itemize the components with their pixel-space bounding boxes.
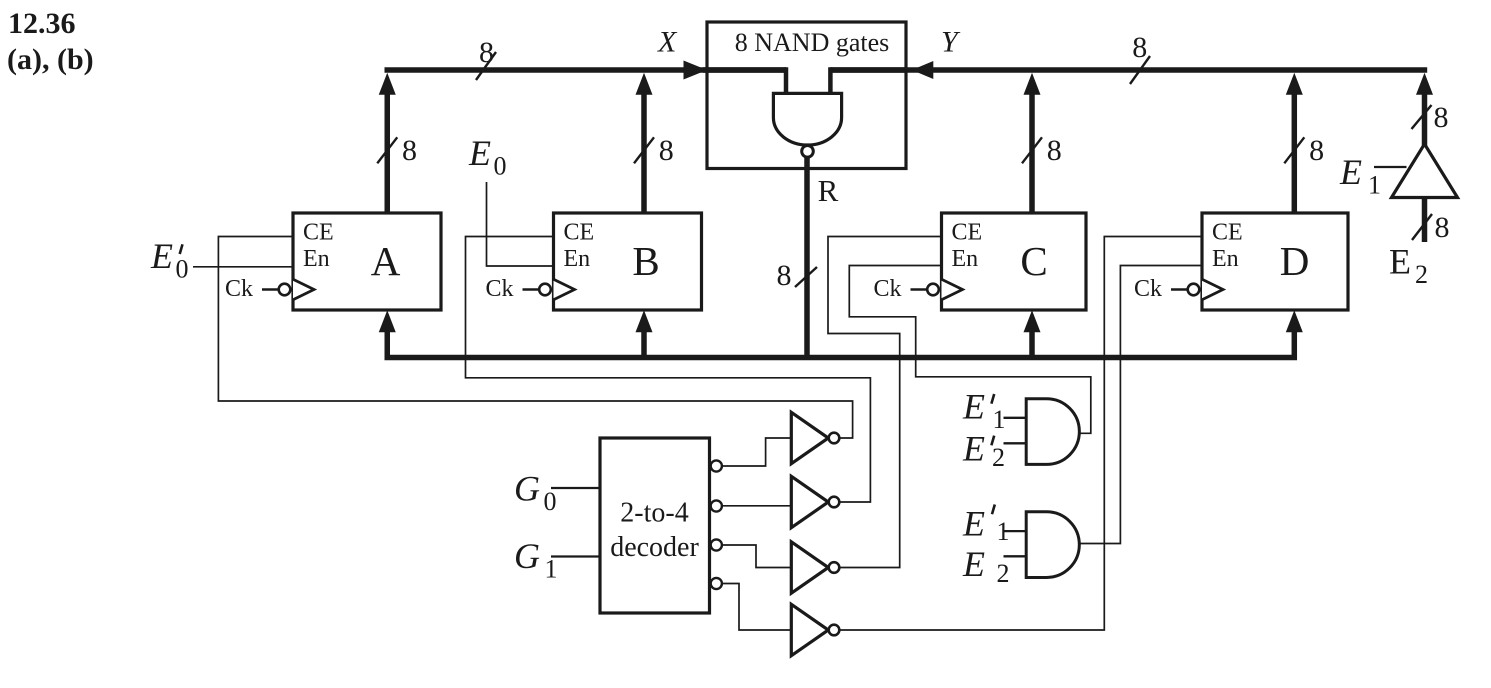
inverter 1 (decoder output 0): [791, 412, 839, 463]
svg-text:1: 1: [1368, 170, 1381, 199]
svg-text:E: E: [468, 133, 491, 173]
wire inverter3 out to register C CE: [828, 237, 942, 568]
clock input Ck of register A: [225, 276, 314, 302]
clock input Ck of register B: [486, 276, 575, 302]
svg-text:G: G: [514, 536, 540, 576]
label E0: [468, 133, 507, 180]
svg-text:decoder: decoder: [610, 532, 699, 563]
bus from register A output to top bus: [379, 73, 396, 213]
label 8 (C bus width): [1047, 134, 1062, 167]
label 8 (A bus width): [402, 134, 417, 167]
svg-text:0: 0: [176, 255, 189, 284]
inverter 2 (decoder output 1): [791, 476, 839, 527]
arrow into register A bottom input: [379, 310, 396, 332]
svg-text:0: 0: [544, 487, 557, 516]
svg-text:D: D: [1280, 238, 1310, 284]
register A: [293, 213, 441, 310]
label G1: [514, 536, 558, 583]
label 8 (R bus width): [777, 259, 792, 292]
decoder output bubble 2: [711, 539, 722, 550]
svg-text:2-to-4: 2-to-4: [620, 498, 688, 529]
svg-text:En: En: [303, 246, 330, 272]
svg-text:8: 8: [402, 134, 417, 167]
wire E0' to register A En: [193, 266, 293, 268]
bus Y (top right, 8-bit): [830, 61, 1427, 79]
label 8 (E2 bus width): [1435, 211, 1450, 244]
svg-text:CE: CE: [303, 220, 334, 246]
svg-text:A: A: [371, 238, 401, 284]
slash 8 on Y bus: [1130, 56, 1150, 84]
svg-text:E: E: [1389, 242, 1411, 282]
label 8 (buffer out width): [1434, 101, 1449, 134]
svg-text:8: 8: [1132, 31, 1147, 64]
label E0': [150, 236, 189, 284]
slash 8 on R: [795, 267, 817, 287]
wire AND2 out to register D En: [1079, 266, 1202, 544]
svg-text:8 NAND gates: 8 NAND gates: [735, 28, 890, 57]
label E1: [1339, 152, 1381, 199]
wire AND1 out to register C En: [849, 266, 1091, 434]
svg-text:CE: CE: [1212, 220, 1243, 246]
title figure number 12.36 (a), (b): [7, 7, 94, 76]
wire G0 input: [551, 487, 600, 489]
svg-text:CE: CE: [952, 220, 983, 246]
slash 8 on E2 bus: [1412, 214, 1432, 240]
decoder output bubble 0: [711, 460, 722, 471]
slash 8 on register B output bus: [634, 137, 654, 163]
label E2 (AND2 in2): [962, 544, 1010, 588]
bus from register B output to top bus: [636, 73, 653, 213]
bus from register D output to top bus: [1286, 73, 1303, 213]
label 8 (X bus width): [479, 36, 494, 69]
arrow into register D bottom input: [1286, 310, 1303, 332]
AND gate 1 input stubs: [1004, 418, 1027, 444]
wire inverter2 out to register B CE: [466, 237, 871, 503]
label 8 (D bus width): [1309, 134, 1324, 167]
wire decoder out2 to inverter 3: [722, 545, 790, 568]
AND gate 2 input stubs: [1004, 531, 1027, 556]
clock input Ck of register C: [874, 276, 963, 302]
svg-text:En: En: [564, 246, 591, 272]
register B: [554, 213, 702, 310]
svg-text:Ck: Ck: [1134, 276, 1162, 302]
label E1' (AND1 in1): [962, 387, 1006, 434]
svg-text:8: 8: [777, 259, 792, 292]
slash 8 on buffer output: [1412, 105, 1432, 129]
svg-text:Ck: Ck: [486, 276, 514, 302]
svg-text:8: 8: [1309, 134, 1324, 167]
svg-text:E: E: [150, 236, 173, 276]
register D: [1202, 213, 1348, 310]
svg-text:B: B: [632, 238, 659, 284]
svg-text:1: 1: [545, 554, 558, 583]
slash 8 on register D output bus: [1284, 137, 1304, 163]
label 8 NAND gates: [735, 28, 890, 57]
decoder output bubble 3: [711, 578, 722, 589]
wire X bus inside block: [703, 67, 786, 92]
bus E2 into buffer: [1422, 198, 1428, 243]
wire inverter1 out to register A CE: [218, 237, 852, 439]
NAND output bubble: [802, 146, 814, 158]
svg-text:C: C: [1020, 238, 1047, 284]
bus X (top left, 8-bit): [385, 61, 787, 80]
label X: [657, 26, 678, 59]
wire decoder out3 to inverter 4: [722, 584, 790, 631]
slash 8 on register C output bus: [1022, 137, 1042, 163]
2-to-4 decoder block: [600, 438, 710, 613]
AND gate 2 (E1'·E2): [1026, 512, 1079, 578]
svg-text:2: 2: [1415, 260, 1428, 289]
svg-text:R: R: [818, 173, 839, 208]
svg-text:1: 1: [993, 405, 1006, 434]
label E2' (AND1 in2): [962, 428, 1005, 472]
svg-text:(a), (b): (a), (b): [7, 43, 94, 76]
svg-text:8: 8: [659, 134, 674, 167]
slash 8 on register A output bus: [377, 137, 397, 163]
8 NAND gates block U1: [707, 22, 906, 169]
svg-text:Ck: Ck: [874, 276, 902, 302]
bus buffer output to top bus: [1416, 73, 1433, 146]
svg-text:8: 8: [1435, 211, 1450, 244]
svg-text:1: 1: [997, 517, 1010, 546]
svg-text:En: En: [1212, 246, 1239, 272]
wire inverter4 out to register D CE: [840, 237, 1202, 631]
slash 8 on X bus: [476, 52, 496, 80]
label 8 (B bus width): [659, 134, 674, 167]
svg-text:X: X: [657, 26, 678, 59]
svg-text:G: G: [514, 469, 540, 509]
svg-text:E: E: [1339, 152, 1362, 192]
svg-text:8: 8: [479, 36, 494, 69]
svg-text:CE: CE: [564, 220, 595, 246]
svg-text:12.36: 12.36: [8, 7, 76, 40]
label R: [818, 173, 839, 208]
svg-text:E: E: [962, 504, 985, 544]
bus bottom (register input bus): [387, 320, 1294, 358]
svg-text:E: E: [962, 428, 985, 468]
svg-text:8: 8: [1434, 101, 1449, 134]
svg-text:Ck: Ck: [225, 276, 253, 302]
arrow into register B bottom input: [636, 310, 653, 332]
svg-text:E: E: [962, 387, 985, 427]
register C: [942, 213, 1087, 310]
tri-state buffer E1 (triangle): [1392, 144, 1458, 198]
bus from register C output to top bus: [1024, 73, 1041, 213]
wire R (NAND outputs to bottom bus): [804, 157, 810, 357]
inverter 4 (decoder output 3): [791, 604, 839, 655]
decoder output bubble 1: [711, 500, 722, 511]
svg-text:E: E: [962, 544, 985, 584]
wire E1 enable: [1374, 166, 1407, 168]
NAND gate symbol inside U1: [773, 93, 841, 145]
label G0: [514, 469, 557, 516]
label Y: [941, 26, 961, 59]
AND gate 1 (E1'·E2'): [1026, 399, 1079, 465]
label E2: [1389, 242, 1428, 289]
svg-text:0: 0: [494, 151, 507, 180]
wire G1 input: [551, 555, 600, 557]
wire E0 to register B En: [487, 182, 554, 266]
svg-text:8: 8: [1047, 134, 1062, 167]
wire decoder out1 to inverter 2: [722, 505, 790, 507]
inverter 3 (decoder output 2): [791, 542, 839, 593]
wire Y bus inside block: [830, 67, 906, 92]
svg-text:2: 2: [997, 559, 1010, 588]
arrow into register C bottom input: [1024, 310, 1041, 332]
label 8 (Y bus width): [1132, 31, 1147, 64]
clock input Ck of register D: [1134, 276, 1223, 302]
label E1' (AND2 in1): [962, 504, 1010, 547]
svg-text:2: 2: [992, 443, 1005, 472]
wire decoder out0 to inverter 1: [722, 438, 790, 466]
svg-text:En: En: [952, 246, 979, 272]
